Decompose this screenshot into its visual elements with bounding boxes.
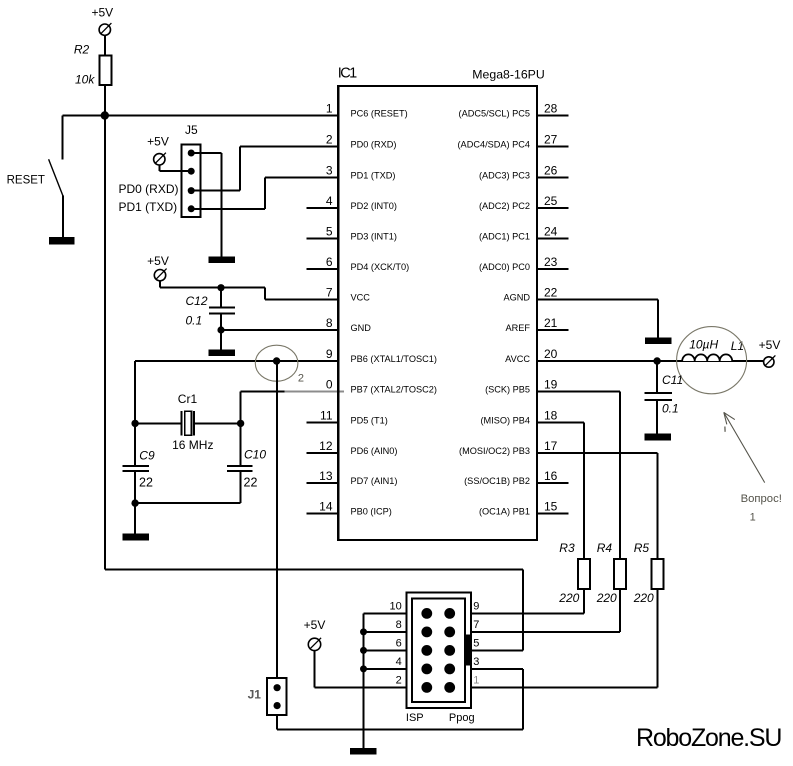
svg-text:5: 5 <box>473 637 479 649</box>
svg-text:220: 220 <box>633 591 654 605</box>
svg-text:220: 220 <box>558 591 579 605</box>
svg-text:J1: J1 <box>248 688 262 702</box>
svg-text:RoboZone.SU: RoboZone.SU <box>636 724 781 752</box>
svg-text:AREF: AREF <box>505 323 530 333</box>
svg-text:L1: L1 <box>731 339 744 353</box>
svg-text:21: 21 <box>544 316 558 330</box>
svg-text:16: 16 <box>544 469 558 483</box>
svg-text:6: 6 <box>326 255 333 269</box>
svg-text:4: 4 <box>396 656 402 668</box>
svg-text:(ADC4/SDA) PC4: (ADC4/SDA) PC4 <box>458 140 531 150</box>
svg-text:9: 9 <box>326 347 333 361</box>
svg-text:IC1: IC1 <box>338 65 357 81</box>
svg-text:Mega8-16PU: Mega8-16PU <box>472 68 544 82</box>
svg-text:VCC: VCC <box>351 293 371 303</box>
svg-text:13: 13 <box>319 469 333 483</box>
svg-text:AGND: AGND <box>503 293 530 303</box>
svg-text:PD4 (XCK/T0): PD4 (XCK/T0) <box>351 262 410 272</box>
svg-text:24: 24 <box>544 225 558 239</box>
svg-text:(ADC5/SCL) PC5: (ADC5/SCL) PC5 <box>459 109 530 119</box>
svg-text:11: 11 <box>320 409 333 423</box>
svg-text:R5: R5 <box>634 541 650 555</box>
svg-text:28: 28 <box>544 102 558 116</box>
svg-text:16 MHz: 16 MHz <box>172 438 213 452</box>
svg-text:R2: R2 <box>74 43 90 57</box>
svg-text:+5V: +5V <box>147 135 169 149</box>
svg-text:(ADC0) PC0: (ADC0) PC0 <box>479 262 530 272</box>
svg-text:C12: C12 <box>186 294 208 308</box>
svg-text:0.1: 0.1 <box>662 401 679 415</box>
svg-text:0: 0 <box>326 378 333 392</box>
svg-text:Ppog: Ppog <box>449 712 475 724</box>
svg-text:C11: C11 <box>662 373 683 387</box>
svg-text:PD1 (TXD): PD1 (TXD) <box>119 200 178 214</box>
svg-text:Вопрос!: Вопрос! <box>741 493 782 505</box>
svg-text:18: 18 <box>544 409 558 423</box>
svg-text:(ADC3) PC3: (ADC3) PC3 <box>479 171 530 181</box>
svg-text:PB7 (XTAL2/TOSC2): PB7 (XTAL2/TOSC2) <box>351 385 437 395</box>
svg-text:+5V: +5V <box>91 6 113 20</box>
svg-text:22: 22 <box>244 476 258 490</box>
svg-text:+5V: +5V <box>304 618 326 632</box>
svg-text:(ADC1) PC1: (ADC1) PC1 <box>479 232 530 242</box>
svg-text:+5V: +5V <box>759 338 781 352</box>
svg-text:25: 25 <box>544 194 558 208</box>
svg-text:PB0 (ICP): PB0 (ICP) <box>351 507 392 517</box>
svg-text:14: 14 <box>319 500 333 514</box>
svg-text:PD2 (INT0): PD2 (INT0) <box>351 201 397 211</box>
svg-text:PB6 (XTAL1/TOSC1): PB6 (XTAL1/TOSC1) <box>351 354 437 364</box>
svg-text:PD6 (AIN0): PD6 (AIN0) <box>351 446 398 456</box>
svg-text:2: 2 <box>298 372 304 384</box>
svg-text:5: 5 <box>326 225 333 239</box>
svg-text:PD0 (RXD): PD0 (RXD) <box>351 140 397 150</box>
svg-text:20: 20 <box>544 347 558 361</box>
svg-text:0.1: 0.1 <box>186 314 203 328</box>
svg-text:PD3 (INT1): PD3 (INT1) <box>351 232 397 242</box>
svg-text:J5: J5 <box>185 123 198 137</box>
svg-text:PC6 (RESET): PC6 (RESET) <box>351 109 408 119</box>
svg-text:7: 7 <box>326 286 333 300</box>
svg-text:19: 19 <box>544 378 558 392</box>
svg-text:2: 2 <box>396 674 402 686</box>
svg-text:27: 27 <box>544 133 558 147</box>
svg-text:1: 1 <box>473 674 479 686</box>
svg-text:3: 3 <box>326 164 333 178</box>
svg-text:1: 1 <box>326 102 333 116</box>
svg-text:C10: C10 <box>244 448 266 462</box>
svg-text:1: 1 <box>750 512 756 524</box>
svg-text:10k: 10k <box>75 73 95 87</box>
svg-text:(OC1A) PB1: (OC1A) PB1 <box>479 507 530 517</box>
svg-text:12: 12 <box>319 439 333 453</box>
svg-text:R4: R4 <box>597 541 613 555</box>
svg-text:26: 26 <box>544 164 558 178</box>
svg-text:C9: C9 <box>139 449 155 463</box>
svg-text:22: 22 <box>544 286 558 300</box>
svg-text:4: 4 <box>326 194 333 208</box>
svg-text:PD5 (T1): PD5 (T1) <box>351 416 388 426</box>
svg-text:3: 3 <box>473 656 479 668</box>
svg-text:Cr1: Cr1 <box>178 392 198 406</box>
svg-text:(ADC2) PC2: (ADC2) PC2 <box>479 201 530 211</box>
svg-text:17: 17 <box>544 439 558 453</box>
svg-text:8: 8 <box>396 619 402 631</box>
svg-text:(MISO) PB4: (MISO) PB4 <box>480 416 530 426</box>
svg-text:10: 10 <box>390 600 402 612</box>
svg-text:R3: R3 <box>559 541 575 555</box>
svg-text:10µH: 10µH <box>689 337 718 351</box>
svg-text:7: 7 <box>473 619 479 631</box>
svg-text:15: 15 <box>544 500 558 514</box>
svg-text:PD7 (AIN1): PD7 (AIN1) <box>351 476 398 486</box>
svg-text:2: 2 <box>326 133 333 147</box>
svg-text:9: 9 <box>473 600 479 612</box>
svg-text:8: 8 <box>326 316 333 330</box>
svg-text:(SS/OC1B) PB2: (SS/OC1B) PB2 <box>464 476 530 486</box>
svg-text:ISP: ISP <box>406 712 424 724</box>
svg-text:PD0 (RXD): PD0 (RXD) <box>119 182 179 196</box>
svg-text:+5V: +5V <box>147 254 169 268</box>
svg-text:(MOSI/OC2) PB3: (MOSI/OC2) PB3 <box>459 446 530 456</box>
svg-text:220: 220 <box>596 591 617 605</box>
svg-text:PD1 (TXD): PD1 (TXD) <box>351 171 396 181</box>
svg-text:22: 22 <box>139 476 153 490</box>
svg-text:(SCK) PB5: (SCK) PB5 <box>485 385 530 395</box>
svg-text:6: 6 <box>396 637 402 649</box>
svg-text:23: 23 <box>544 255 558 269</box>
svg-text:GND: GND <box>351 323 372 333</box>
svg-text:AVCC: AVCC <box>505 354 530 364</box>
svg-text:RESET: RESET <box>7 174 45 186</box>
